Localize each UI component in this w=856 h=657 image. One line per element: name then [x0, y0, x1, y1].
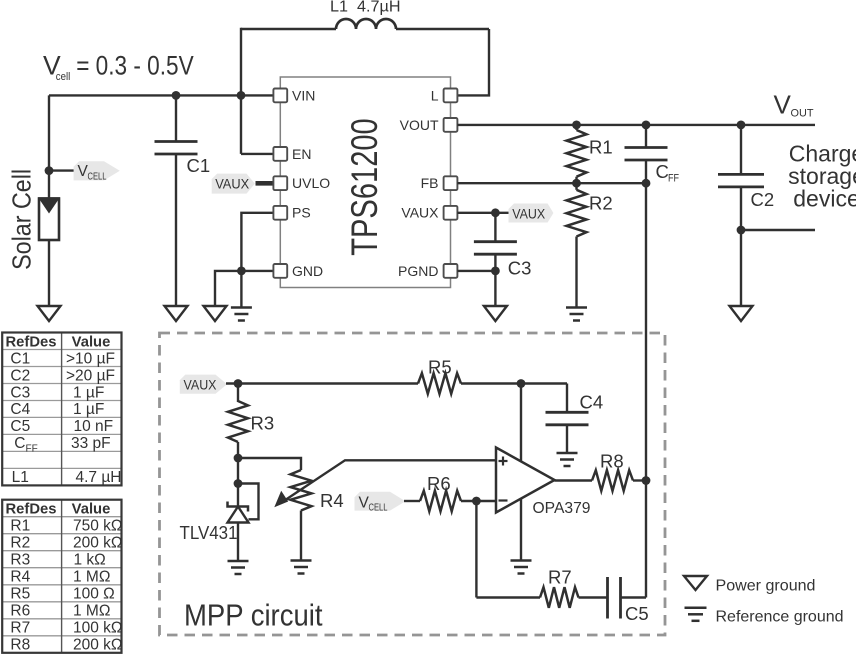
svg-text:L1: L1: [12, 469, 29, 486]
svg-text:R5: R5: [10, 586, 30, 603]
svg-text:R6: R6: [427, 473, 451, 494]
pin L: [444, 89, 458, 103]
wire: R2 to reference ground: [575, 237, 577, 308]
node: PGND/C3: [491, 267, 500, 276]
svg-text:C3: C3: [10, 384, 30, 401]
wire: C1 bottom lead: [175, 154, 177, 306]
wire: R7 to C5: [579, 596, 608, 598]
svg-text:100 kΩ: 100 kΩ: [73, 620, 123, 637]
node: VOUT/R1: [572, 121, 581, 130]
wire: R3 top lead: [237, 384, 239, 403]
wire: C2 top lead: [740, 125, 742, 174]
node: VIN/EN riser junction: [237, 91, 246, 100]
node: VOUT/C2: [737, 121, 746, 130]
wire: CFF bottom lead + long feedback drop to C5: [645, 160, 647, 598]
svg-text:1 µF: 1 µF: [73, 384, 104, 401]
pin VAUX: [444, 206, 458, 220]
svg-text:R7: R7: [10, 620, 30, 637]
wire: FB rail: [457, 182, 646, 184]
node: R8 output junction: [642, 476, 651, 485]
reference ground (op-amp): [511, 559, 532, 562]
node: GND junction: [237, 267, 246, 276]
svg-text:R6: R6: [10, 603, 30, 620]
node: TLV431 ref tap: [234, 479, 243, 488]
svg-text:>10 µF: >10 µF: [66, 350, 115, 367]
svg-text:VAUX: VAUX: [184, 377, 218, 393]
wire: R8 to feedback column: [633, 479, 646, 481]
svg-text:MPP circuit: MPP circuit: [184, 599, 323, 633]
MPP circuit dashed box: [160, 333, 666, 635]
svg-text:R4: R4: [10, 569, 30, 586]
svg-text:R8: R8: [10, 637, 30, 654]
wire: junction to R4: [238, 458, 301, 470]
legend: reference ground symbol: [685, 607, 707, 610]
pin EN: [273, 147, 287, 161]
svg-text:C1: C1: [10, 350, 30, 367]
svg-text:1 MΩ: 1 MΩ: [73, 603, 110, 620]
wire: C2 bottom lead: [740, 187, 742, 306]
svg-text:GND: GND: [292, 263, 323, 279]
wire: op-amp output: [555, 479, 593, 481]
svg-text:1 kΩ: 1 kΩ: [74, 552, 106, 569]
svg-text:VIN: VIN: [292, 87, 315, 103]
reference ground (R2): [566, 306, 587, 309]
wire: C4 top lead: [566, 384, 568, 413]
svg-text:PGND: PGND: [398, 263, 438, 279]
svg-text:VAUX: VAUX: [512, 205, 546, 221]
svg-text:C2: C2: [751, 189, 775, 210]
net tag VAUX (C3): [509, 204, 554, 223]
node: Vcell tap: [45, 166, 54, 175]
wire: feedback bottom run: [476, 596, 540, 598]
table: resistor values: [2, 516, 121, 518]
reference ground (R4): [291, 559, 312, 562]
net tag VCELL (MPP): [355, 492, 406, 511]
svg-text:4.7 µH: 4.7 µH: [76, 469, 122, 486]
svg-text:= 0.3 - 0.5V: = 0.3 - 0.5V: [76, 51, 194, 81]
node: R3/R4 junction: [234, 454, 243, 463]
node: VAUX/R3: [234, 379, 243, 388]
svg-text:PS: PS: [292, 205, 311, 221]
svg-text:Value: Value: [72, 334, 111, 350]
svg-text:C4: C4: [580, 392, 604, 413]
node: FB/CFF: [642, 179, 651, 188]
svg-text:200 kΩ: 200 kΩ: [73, 535, 123, 552]
svg-text:V: V: [774, 89, 792, 119]
svg-text:C: C: [656, 161, 669, 182]
svg-text:R3: R3: [10, 552, 30, 569]
svg-text:R3: R3: [251, 413, 275, 434]
svg-text:OUT: OUT: [791, 108, 814, 120]
svg-text:1 µF: 1 µF: [73, 401, 104, 418]
potentiometer R4: [291, 470, 312, 511]
pin UVLO: [273, 176, 287, 190]
power ground (solar cell): [38, 306, 61, 321]
svg-text:UVLO: UVLO: [292, 175, 330, 191]
wire: PGND to C3 leg: [457, 270, 495, 272]
svg-text:L: L: [431, 87, 439, 103]
svg-text:FF: FF: [668, 173, 679, 185]
svg-text:cell: cell: [56, 71, 71, 83]
wire: right riser to L pin: [457, 29, 489, 95]
svg-text:device: device: [793, 186, 856, 212]
svg-text:FF: FF: [26, 443, 38, 454]
wire: GND to reference ground: [240, 271, 242, 307]
resistor R5: [418, 373, 461, 394]
pin PGND: [444, 264, 458, 278]
resistor R7: [540, 587, 579, 608]
wire: CFF top lead: [645, 125, 647, 148]
svg-text:FB: FB: [421, 175, 439, 191]
wire: left riser from top loop to EN: [240, 28, 242, 154]
wire: TLV431 feedback loop: [238, 484, 259, 520]
svg-text:C5: C5: [10, 418, 30, 435]
wire: C4 bottom lead: [566, 425, 568, 453]
svg-text:750 kΩ: 750 kΩ: [73, 518, 123, 535]
op-amp minus marker: [499, 499, 508, 501]
svg-text:Reference ground: Reference ground: [716, 609, 844, 626]
svg-text:C3: C3: [508, 258, 532, 279]
pin VOUT: [444, 118, 458, 132]
wire: R2 top lead: [575, 183, 577, 190]
net tag VAUX (UVLO): [212, 174, 255, 194]
svg-text:CELL: CELL: [88, 171, 107, 182]
wire: C3 top lead: [494, 213, 496, 242]
wire: VAUX row to R5: [226, 382, 418, 384]
wire: R4 bottom lead: [300, 511, 302, 561]
wire: top inductor loop left segment: [241, 28, 336, 30]
node: VIN/C1 junction: [172, 91, 181, 100]
reference ground (GND pin): [231, 306, 252, 309]
svg-text:R1: R1: [10, 518, 30, 535]
wire: R1 top lead: [575, 125, 577, 130]
svg-text:TPS61200: TPS61200: [344, 118, 385, 256]
svg-text:C2: C2: [10, 367, 30, 384]
svg-text:TLV431: TLV431: [180, 522, 238, 543]
wire: C5 to feedback column: [621, 596, 647, 598]
net tag VAUX (MPP): [180, 375, 227, 394]
resistor R6: [420, 491, 461, 512]
reference ground (TLV431): [228, 560, 249, 563]
wire: VCELL to R6: [404, 500, 420, 502]
wire: charge storage return: [741, 229, 815, 231]
node: FB/R1R2: [572, 179, 581, 188]
wire: feedback drop: [475, 501, 477, 598]
svg-text:10 nF: 10 nF: [74, 418, 114, 435]
net tag VCELL (solar cell): [74, 161, 120, 180]
wire: to VCELL tag: [49, 169, 75, 171]
wire: R6 to op-amp minus input: [461, 500, 496, 502]
wire: VAUX tag to UVLO pin: [256, 181, 274, 186]
svg-text:VAUX: VAUX: [401, 205, 439, 221]
svg-text:R7: R7: [548, 567, 572, 588]
power ground (C1): [165, 306, 188, 321]
svg-text:33 pF: 33 pF: [71, 435, 111, 452]
node: R6/R7 feedback junction: [472, 497, 481, 506]
svg-text:Solar Cell: Solar Cell: [7, 169, 37, 270]
resistor R8: [592, 470, 633, 491]
power ground (PGND): [484, 306, 507, 321]
inductor L1: [336, 19, 396, 29]
wire: PS connection: [241, 213, 273, 271]
pin GND: [273, 264, 287, 278]
IC U1 TPS61200 body: [280, 77, 450, 288]
svg-text:C5: C5: [625, 603, 649, 624]
node: R5/C4/supply: [517, 379, 526, 388]
svg-text:EN: EN: [292, 146, 311, 162]
capacitor C5: [606, 577, 609, 619]
wire: VIN rail: [49, 94, 274, 96]
wire: R1 bottom lead: [575, 177, 577, 184]
svg-text:C4: C4: [10, 401, 30, 418]
wire: C1 top lead: [175, 95, 177, 141]
svg-text:100 Ω: 100 Ω: [73, 586, 115, 603]
svg-text:C: C: [14, 435, 25, 452]
svg-text:RefDes: RefDes: [6, 334, 57, 350]
wire: GND rail with jog: [215, 271, 274, 306]
shunt reference TLV431: [228, 502, 249, 512]
svg-text:RefDes: RefDes: [6, 502, 57, 518]
wire: R5 to C4/op-amp supply: [461, 382, 567, 384]
svg-text:Value: Value: [72, 502, 111, 518]
svg-text:R8: R8: [600, 451, 624, 472]
svg-text:VAUX: VAUX: [215, 177, 249, 192]
legend: power ground symbol: [684, 576, 707, 590]
wire: EN connection: [241, 153, 274, 155]
wire: solar cell branch: [48, 95, 50, 198]
wire: wiper arrow to op-amp plus input: [280, 460, 496, 503]
table: capacitor values: [2, 349, 121, 351]
svg-text:Power ground: Power ground: [716, 578, 816, 595]
svg-text:R4: R4: [320, 490, 344, 511]
svg-text:R1: R1: [589, 137, 613, 158]
node: VOUT/CFF: [642, 121, 651, 130]
op-amp plus marker: [499, 460, 508, 462]
svg-text:R5: R5: [428, 357, 452, 378]
op-amp U2 OPA379: [496, 448, 555, 513]
svg-text:200 kΩ: 200 kΩ: [73, 637, 123, 654]
pin VIN: [273, 89, 287, 103]
svg-text:L1 4.7µH: L1 4.7µH: [330, 0, 401, 15]
wire: TLV431 anode to ground: [237, 523, 239, 561]
pin PS: [273, 206, 287, 220]
wire: top inductor loop right segment: [396, 28, 489, 30]
wire: solar cell to ground: [48, 240, 50, 306]
svg-text:OPA379: OPA379: [533, 500, 591, 517]
svg-text:VOUT: VOUT: [400, 117, 439, 133]
wire: VAUX pin to tag/C3: [457, 212, 508, 214]
svg-text:R2: R2: [10, 535, 30, 552]
svg-text:CELL: CELL: [369, 502, 388, 513]
reference ground (C4): [557, 452, 578, 455]
svg-text:1 MΩ: 1 MΩ: [73, 569, 110, 586]
wire: C3 bottom lead to power ground: [494, 254, 496, 306]
wire: op-amp supply drop: [520, 384, 522, 561]
pin FB: [444, 176, 458, 190]
node: C2 bottom junction: [737, 226, 746, 235]
wire: VOUT rail: [457, 124, 815, 126]
svg-text:R2: R2: [589, 193, 613, 214]
svg-text:C1: C1: [187, 155, 211, 176]
power ground (GND pin): [204, 306, 227, 321]
solar cell PV1: [39, 199, 59, 241]
wire: R3 bottom lead to TLV431: [237, 442, 239, 507]
power ground (C2): [730, 306, 753, 321]
svg-text:>20 µF: >20 µF: [66, 367, 115, 384]
